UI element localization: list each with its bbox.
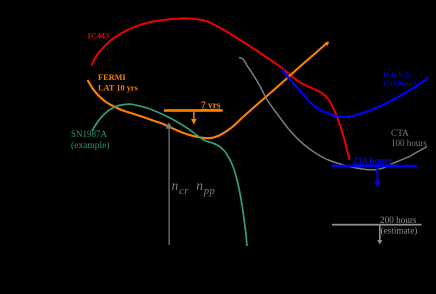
arrow down from 210 hours line — [374, 167, 381, 187]
svg-text:200 hours: 200 hours — [380, 215, 417, 225]
svg-text:LAT 10 yrs: LAT 10 yrs — [98, 83, 139, 92]
svg-text:IC443: IC443 — [88, 32, 110, 41]
arrow down from 200 hours line — [377, 226, 382, 245]
annotation 7 yrs bar (orange) — [164, 109, 223, 112]
svg-text:FERMI: FERMI — [98, 73, 126, 82]
svg-text:210 hours: 210 hours — [353, 156, 393, 166]
svg-text:100 hours: 100 hours — [382, 78, 418, 88]
curve IC443 (red sensitivity curve) — [91, 18, 349, 159]
svg-text:100 hours: 100 hours — [391, 138, 427, 148]
arrow n_cr (gray vertical up arrow) — [166, 122, 173, 245]
line 210 hours (blue horizontal limit) — [332, 165, 417, 168]
svg-text:7 yrs: 7 yrs — [201, 101, 221, 111]
arrow down from 7 yrs bar — [191, 112, 197, 125]
svg-text:SN1987A: SN1987A — [71, 129, 108, 139]
svg-text:(example): (example) — [71, 140, 110, 151]
curve SN1987A (green example curve) — [92, 104, 247, 246]
arrowhead at top end of FERMI curve — [325, 42, 330, 46]
line 200 hours (gray horizontal limit) — [332, 224, 422, 226]
curve CTA (gray sensitivity curve) — [239, 58, 427, 170]
svg-text:(estimate): (estimate) — [381, 226, 418, 236]
curve H.E.S.S. (blue sensitivity curve) — [282, 69, 428, 117]
curve FERMI LAT (orange sensitivity curve) — [88, 42, 329, 138]
